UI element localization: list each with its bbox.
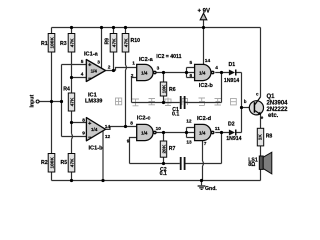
svg-text:5: 5 [190, 60, 193, 66]
svg-text:2N2222: 2N2222 [267, 107, 289, 113]
svg-text:14: 14 [205, 58, 211, 64]
svg-text:9: 9 [127, 138, 130, 144]
svg-text:IC1-a: IC1-a [84, 52, 99, 58]
svg-text:0.1: 0.1 [172, 112, 179, 118]
svg-text:1/4: 1/4 [91, 68, 98, 73]
svg-text:3: 3 [97, 60, 100, 66]
svg-text:0.1: 0.1 [160, 171, 167, 177]
svg-text:c: c [256, 92, 259, 97]
svg-text:1K: 1K [257, 134, 263, 141]
svg-text:10K: 10K [161, 84, 167, 93]
svg-text:R2: R2 [41, 160, 48, 166]
svg-text:R10: R10 [131, 38, 141, 44]
svg-text:R5: R5 [61, 160, 68, 166]
svg-text:Input: Input [30, 95, 36, 108]
svg-text:1: 1 [132, 60, 135, 66]
svg-text:2: 2 [108, 65, 111, 71]
svg-text:1/4: 1/4 [141, 130, 148, 135]
svg-text:4: 4 [215, 65, 218, 71]
svg-text:13: 13 [186, 139, 192, 145]
svg-text:IC2-a: IC2-a [139, 57, 154, 63]
svg-text:R1: R1 [41, 41, 48, 47]
svg-text:100K: 100K [49, 37, 55, 49]
svg-text:Q1: Q1 [267, 94, 276, 100]
svg-text:R7: R7 [169, 146, 176, 152]
svg-text:2N3904: 2N3904 [267, 101, 289, 107]
svg-text:etc.: etc. [268, 113, 279, 119]
svg-text:IC2 = 4011: IC2 = 4011 [156, 54, 181, 60]
svg-text:20K: 20K [161, 144, 167, 153]
svg-text:47K: 47K [123, 38, 129, 47]
svg-text:6: 6 [190, 73, 193, 79]
svg-text:10: 10 [156, 126, 162, 132]
svg-text:47K: 47K [69, 158, 75, 167]
svg-text:12: 12 [105, 134, 111, 140]
svg-text:1/4: 1/4 [199, 70, 206, 75]
svg-text:1/4: 1/4 [91, 127, 98, 132]
svg-text:47K: 47K [111, 38, 117, 47]
svg-text:Gnd.: Gnd. [205, 186, 217, 192]
svg-text:12: 12 [186, 119, 192, 125]
svg-text:1N914: 1N914 [224, 78, 239, 84]
svg-text:8: 8 [130, 120, 133, 126]
svg-text:R9: R9 [105, 38, 111, 45]
svg-text:8Ω: 8Ω [248, 162, 255, 168]
svg-text:D1: D1 [229, 62, 236, 68]
svg-text:14: 14 [105, 124, 111, 130]
svg-text:100K: 100K [49, 157, 55, 169]
svg-text:11: 11 [215, 126, 220, 132]
svg-text:3: 3 [157, 65, 160, 71]
svg-text:7: 7 [204, 141, 207, 147]
svg-text:9: 9 [82, 130, 85, 136]
svg-text:LM339: LM339 [85, 99, 102, 105]
svg-text:R6: R6 [169, 87, 176, 93]
svg-text:e: e [261, 115, 264, 120]
svg-text:2: 2 [131, 73, 134, 79]
svg-text:R8: R8 [266, 134, 273, 140]
svg-text:47K: 47K [69, 97, 75, 106]
svg-text:R4: R4 [63, 86, 70, 92]
svg-text:IC1-b: IC1-b [89, 145, 104, 151]
svg-text:1N914: 1N914 [226, 136, 241, 142]
svg-text:8: 8 [82, 118, 85, 124]
svg-text:1/4: 1/4 [199, 130, 206, 135]
svg-text:R3: R3 [60, 41, 67, 47]
svg-text:47K: 47K [69, 38, 75, 47]
svg-text:1/4: 1/4 [141, 70, 148, 75]
svg-text:5: 5 [81, 59, 84, 65]
svg-text:4: 4 [81, 72, 84, 78]
svg-text:IC2-d: IC2-d [197, 116, 212, 122]
svg-text:+ 9V: + 9V [198, 9, 211, 15]
svg-text:D2: D2 [228, 122, 235, 128]
svg-text:IC2-b: IC2-b [199, 83, 214, 89]
svg-text:b: b [244, 99, 247, 104]
svg-text:IC2-c: IC2-c [137, 116, 151, 122]
